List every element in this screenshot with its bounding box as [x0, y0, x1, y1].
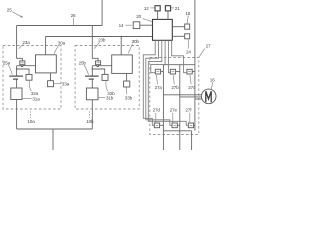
svg-text:27c: 27c	[188, 85, 196, 90]
box 24	[185, 34, 190, 39]
svg-text:31a: 31a	[32, 96, 40, 101]
leader 27e	[172, 113, 174, 123]
svg-text:33b: 33b	[125, 95, 133, 100]
leader 32b	[106, 81, 108, 91]
svg-text:26: 26	[71, 13, 76, 18]
control fan line 5 to 27b	[168, 40, 170, 72]
svg-text:27: 27	[206, 44, 211, 49]
leader 27a	[156, 75, 157, 84]
box 21	[165, 6, 170, 11]
dashed box battery unit 10b	[75, 46, 139, 110]
wire leg 2	[179, 65, 181, 150]
control fan line 6 to 27c	[172, 40, 187, 72]
wire 27f stub	[194, 124, 195, 126]
wire 27b stub	[176, 71, 180, 73]
control unit 20	[153, 19, 173, 40]
leader 32a	[29, 81, 31, 91]
wire drop from bus to 23b	[92, 26, 98, 62]
wire right riser	[194, 0, 196, 65]
svg-text:21: 21	[175, 6, 180, 11]
wire 31b to bottom bus	[91, 100, 93, 129]
wire main line a middle	[16, 66, 18, 76]
leader 26	[72, 18, 74, 25]
control fan line 4 to 27a	[151, 40, 165, 72]
gate box 27e	[172, 123, 177, 128]
dash 12	[150, 7, 154, 9]
wire contact line b	[92, 65, 111, 67]
sensor box 33b	[124, 81, 130, 87]
sensor box 32a	[26, 74, 32, 80]
wire 30a to 33a	[50, 73, 52, 81]
box 12	[155, 6, 160, 11]
leader 27f	[189, 113, 191, 123]
wire phase line u	[163, 94, 201, 96]
svg-text:27e: 27e	[170, 107, 178, 112]
dashed box inverter 27	[150, 58, 199, 135]
gate mark 27e	[173, 124, 176, 126]
junction node b	[92, 68, 94, 70]
gate box 27f	[188, 123, 193, 128]
leader 20	[143, 19, 152, 22]
gate box 27c	[187, 69, 192, 74]
svg-text:10a: 10a	[27, 119, 35, 124]
svg-text:24: 24	[186, 49, 191, 54]
leader dash 31a	[22, 98, 31, 100]
sensor box 31a	[11, 88, 22, 100]
sensor box 33a	[48, 81, 54, 87]
wire phase line v	[180, 96, 202, 98]
wire unit to box24	[172, 35, 184, 37]
leader 16	[211, 82, 213, 89]
box 14	[133, 22, 140, 29]
wire bottom rail drop	[191, 131, 193, 150]
wire 31a to bottom bus	[16, 100, 18, 130]
gate box 27a	[155, 69, 160, 74]
leader 27b	[173, 75, 174, 84]
gate mark 27c	[188, 71, 191, 73]
wire 30b to 33b	[126, 73, 128, 81]
gate box 27d	[154, 123, 159, 128]
wire bottom bus	[17, 128, 93, 130]
leader 33b	[126, 87, 128, 94]
svg-text:25b: 25b	[79, 60, 87, 65]
leader 25a	[8, 65, 12, 75]
junction node bus2	[120, 36, 122, 38]
dash 14	[125, 24, 131, 26]
sensor box 32b	[102, 74, 108, 80]
wire unit to box18	[172, 26, 184, 28]
leader 24	[187, 39, 189, 49]
svg-text:27a: 27a	[155, 85, 163, 90]
leader 30b	[128, 44, 132, 54]
wire 27e stub	[177, 124, 180, 126]
wire 27c stub	[192, 71, 195, 73]
gate mark 27b	[172, 71, 175, 73]
leader 27c	[190, 75, 191, 84]
control fan line 2 to 27e	[146, 40, 172, 125]
wire bottom rail inverter	[163, 130, 191, 132]
svg-text:27d: 27d	[153, 107, 161, 112]
coil mark 23a	[21, 62, 24, 64]
leader dash 31b	[99, 97, 106, 99]
svg-text:23a: 23a	[22, 40, 30, 45]
leader 30a	[54, 45, 59, 54]
label dash 33a	[54, 83, 62, 85]
dash 21	[171, 7, 174, 9]
wire phase line w	[195, 98, 202, 100]
svg-text:12: 12	[144, 6, 149, 11]
contact circle 23a	[21, 65, 23, 67]
wire main line b middle	[91, 66, 93, 76]
arrow 25	[12, 12, 22, 18]
wire contact line a	[17, 65, 36, 67]
leader 10a	[29, 111, 31, 118]
wire main line a upper	[17, 26, 23, 62]
gate box 27b	[170, 69, 175, 74]
battery 25b long plate	[85, 75, 99, 77]
leader 27d	[155, 113, 157, 123]
svg-text:10b: 10b	[86, 119, 94, 124]
leader 18	[187, 15, 188, 23]
svg-text:27f: 27f	[185, 107, 192, 112]
battery 25b short plate	[89, 78, 94, 80]
svg-text:23b: 23b	[98, 38, 106, 43]
wire battery b to 31b	[91, 79, 93, 88]
sensor box 31b	[86, 88, 98, 100]
battery 25a long plate	[9, 75, 23, 77]
gate mark 27a	[157, 71, 160, 73]
svg-text:25a: 25a	[3, 60, 11, 65]
svg-text:30b: 30b	[132, 39, 140, 44]
wire box21 to unit	[167, 11, 169, 20]
svg-text:31b: 31b	[106, 96, 114, 101]
wire drop to 30b	[120, 37, 122, 55]
wire bottom tap down	[52, 129, 54, 150]
converter box 30b	[112, 55, 133, 74]
wire box14 to unit	[140, 24, 153, 26]
wire inverter top rail	[163, 64, 195, 66]
contact circle 23b	[97, 65, 99, 67]
wire tap to 32a	[17, 69, 29, 74]
svg-text:30a: 30a	[58, 41, 66, 46]
control fan line 1 to 27d	[143, 40, 155, 125]
wire tap to 32b	[92, 69, 104, 74]
leader 27	[199, 48, 205, 57]
motor M 16	[201, 89, 216, 104]
wire riser to top edge	[101, 0, 103, 26]
svg-text:20: 20	[136, 14, 141, 19]
gate mark 27f	[190, 124, 193, 126]
svg-text:33a: 33a	[62, 82, 70, 87]
box 18	[185, 24, 190, 29]
wire bus 26 horizontal	[17, 25, 103, 27]
junction node a	[16, 68, 18, 70]
leader 10b	[89, 111, 91, 118]
relay coil 23b	[96, 61, 101, 65]
control fan line 3 to 27f	[148, 40, 188, 125]
svg-text:18: 18	[185, 11, 190, 16]
gate mark 27d	[156, 124, 159, 126]
wire 27d stub	[160, 124, 164, 126]
dashed box battery unit 10a	[3, 46, 61, 110]
wire battery a to 31a	[16, 79, 18, 88]
wire 30a top feed	[45, 37, 47, 55]
leader 23b	[94, 42, 99, 48]
wire leg 1	[162, 65, 164, 150]
wire bus 2	[46, 36, 153, 38]
svg-text:27b: 27b	[171, 85, 179, 90]
wire leg 3	[194, 65, 196, 131]
svg-text:14: 14	[119, 23, 124, 28]
leader 23a	[19, 44, 24, 48]
converter box 30a	[36, 55, 57, 73]
svg-text:16: 16	[210, 77, 215, 82]
wire box12 to unit	[157, 11, 159, 20]
leader 25b	[84, 65, 89, 75]
battery 25a short plate	[13, 78, 18, 80]
relay coil 23a	[20, 61, 25, 65]
wire 27a stub	[161, 71, 164, 73]
svg-text:25: 25	[7, 7, 12, 12]
coil mark 23b	[97, 62, 100, 64]
